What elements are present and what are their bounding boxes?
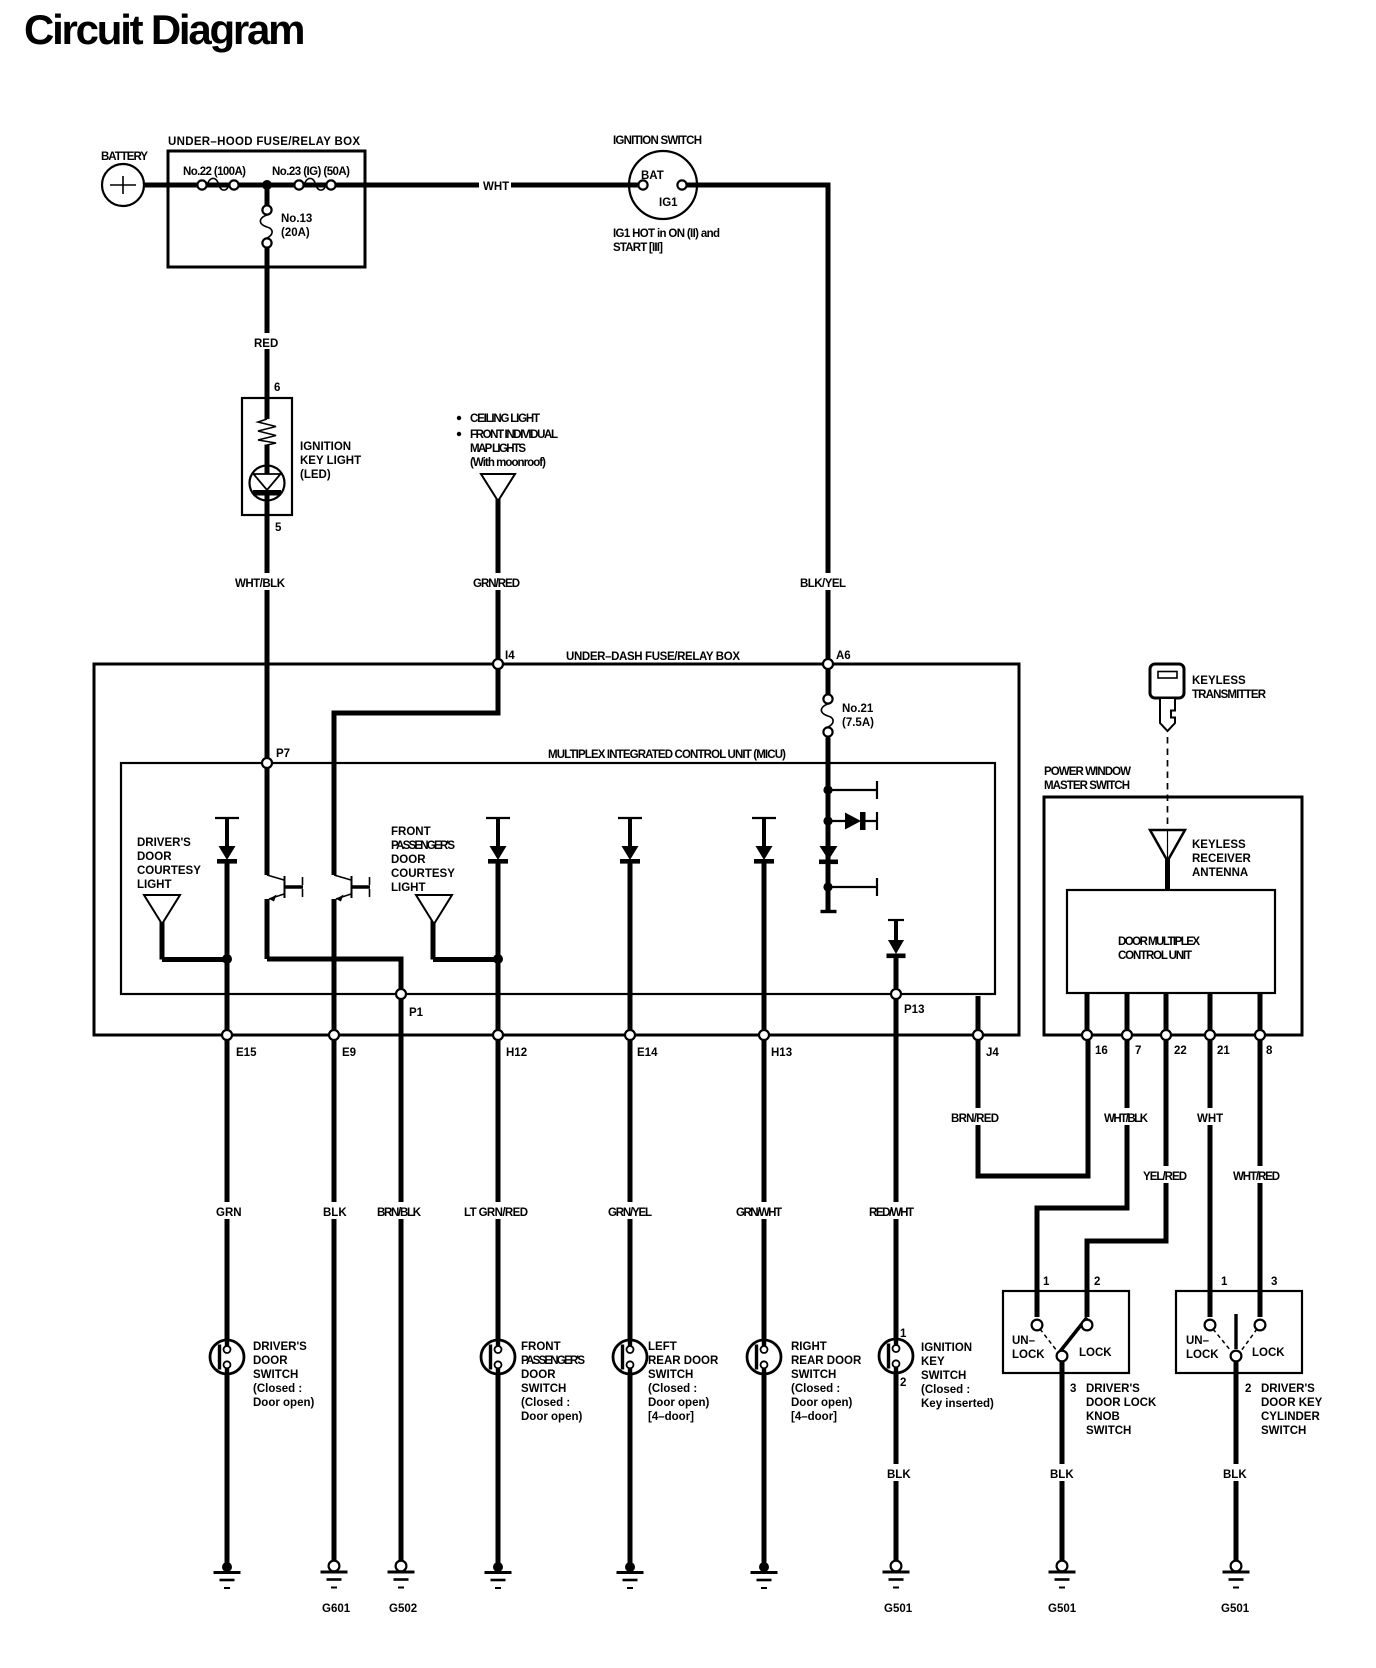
svg-text:8: 8	[1266, 1045, 1273, 1057]
svg-text:P13: P13	[904, 1004, 924, 1016]
svg-text:SWITCH: SWITCH	[648, 1369, 693, 1381]
svg-text:POWER WINDOW: POWER WINDOW	[1044, 766, 1131, 778]
svg-text:(LED): (LED)	[300, 469, 331, 481]
svg-text:No.21: No.21	[842, 703, 874, 715]
svg-text:PASSENGER'S: PASSENGER'S	[391, 840, 455, 852]
svg-text:ANTENNA: ANTENNA	[1192, 867, 1248, 879]
svg-text:(With moonroof): (With moonroof)	[470, 457, 546, 469]
svg-text:LT GRN/RED: LT GRN/RED	[464, 1207, 528, 1219]
svg-text:No.22 (100A): No.22 (100A)	[183, 166, 246, 178]
svg-text:A6: A6	[836, 650, 851, 662]
svg-text:Key inserted): Key inserted)	[921, 1398, 994, 1410]
svg-text:LIGHT: LIGHT	[137, 879, 172, 891]
svg-text:(Closed :: (Closed :	[791, 1383, 840, 1395]
svg-text:DOOR LOCK: DOOR LOCK	[1086, 1397, 1157, 1409]
svg-text:DRIVER'S: DRIVER'S	[1261, 1383, 1315, 1395]
svg-text:DRIVER'S: DRIVER'S	[137, 837, 191, 849]
svg-text:UN–: UN–	[1186, 1335, 1210, 1347]
svg-text:BAT: BAT	[641, 170, 664, 182]
svg-text:BLK/YEL: BLK/YEL	[800, 578, 846, 590]
svg-text:MASTER SWITCH: MASTER SWITCH	[1044, 780, 1130, 792]
svg-text:SWITCH: SWITCH	[253, 1369, 298, 1381]
svg-text:WHT: WHT	[483, 181, 509, 193]
svg-text:3: 3	[1070, 1383, 1076, 1395]
svg-text:G601: G601	[322, 1603, 351, 1615]
svg-text:BLK: BLK	[1050, 1469, 1074, 1481]
svg-text:DRIVER'S: DRIVER'S	[253, 1341, 307, 1353]
svg-text:No.13: No.13	[281, 213, 312, 225]
svg-text:BATTERY: BATTERY	[101, 151, 148, 163]
svg-text:LOCK: LOCK	[1252, 1347, 1285, 1359]
svg-text:SWITCH: SWITCH	[791, 1369, 836, 1381]
svg-text:LOCK: LOCK	[1186, 1349, 1219, 1361]
svg-text:G501: G501	[1048, 1603, 1077, 1615]
svg-text:LIGHT: LIGHT	[391, 882, 426, 894]
svg-text:Circuit Diagram: Circuit Diagram	[24, 6, 305, 53]
svg-text:[4–door]: [4–door]	[648, 1411, 694, 1423]
svg-text:BRN/RED: BRN/RED	[951, 1113, 999, 1125]
svg-text:RED/WHT: RED/WHT	[869, 1207, 914, 1219]
svg-text:G502: G502	[389, 1603, 417, 1615]
svg-text:E14: E14	[637, 1047, 658, 1059]
svg-text:TRANSMITTER: TRANSMITTER	[1192, 689, 1267, 701]
svg-text:UN–: UN–	[1012, 1335, 1036, 1347]
svg-text:(Closed :: (Closed :	[648, 1383, 697, 1395]
svg-text:SWITCH: SWITCH	[521, 1383, 566, 1395]
svg-text:IG1 HOT in ON (II) and: IG1 HOT in ON (II) and	[613, 228, 720, 240]
svg-text:IG1: IG1	[659, 197, 678, 209]
svg-text:(Closed :: (Closed :	[921, 1384, 970, 1396]
svg-text:BLK: BLK	[1223, 1469, 1247, 1481]
svg-text:GRN/YEL: GRN/YEL	[608, 1207, 652, 1219]
svg-text:RIGHT: RIGHT	[791, 1341, 827, 1353]
svg-text:IGNITION SWITCH: IGNITION SWITCH	[613, 135, 702, 147]
svg-text:BLK: BLK	[887, 1469, 911, 1481]
svg-text:PASSENGER'S: PASSENGER'S	[521, 1355, 585, 1367]
svg-text:FRONT: FRONT	[521, 1341, 561, 1353]
svg-text:3: 3	[1271, 1276, 1277, 1288]
svg-text:2: 2	[1094, 1276, 1100, 1288]
svg-text:H13: H13	[771, 1047, 792, 1059]
svg-text:P1: P1	[409, 1007, 424, 1019]
svg-text:21: 21	[1217, 1045, 1230, 1057]
svg-text:DOOR: DOOR	[137, 851, 172, 863]
svg-text:DOOR KEY: DOOR KEY	[1261, 1397, 1323, 1409]
svg-text:LOCK: LOCK	[1012, 1349, 1045, 1361]
svg-text:SWITCH: SWITCH	[1261, 1425, 1306, 1437]
svg-text:WHT/RED: WHT/RED	[1233, 1171, 1280, 1183]
svg-text:KEY: KEY	[921, 1356, 945, 1368]
svg-text:RECEIVER: RECEIVER	[1192, 853, 1251, 865]
svg-text:REAR DOOR: REAR DOOR	[648, 1355, 719, 1367]
svg-text:FRONT: FRONT	[391, 826, 431, 838]
svg-text:(20A): (20A)	[281, 227, 310, 239]
svg-text:GRN/WHT: GRN/WHT	[736, 1207, 782, 1219]
svg-text:(Closed :: (Closed :	[253, 1383, 302, 1395]
svg-text:WHT/BLK: WHT/BLK	[235, 578, 286, 590]
svg-text:LOCK: LOCK	[1079, 1347, 1112, 1359]
svg-text:Door open): Door open)	[253, 1397, 314, 1409]
svg-text:DOOR: DOOR	[391, 854, 426, 866]
svg-text:UNDER–HOOD FUSE/RELAY BOX: UNDER–HOOD FUSE/RELAY BOX	[168, 136, 360, 148]
svg-text:START [III]: START [III]	[613, 242, 663, 254]
svg-text:WHT/BLK: WHT/BLK	[1104, 1113, 1149, 1125]
svg-text:UNDER–DASH FUSE/RELAY BOX: UNDER–DASH FUSE/RELAY BOX	[566, 651, 740, 663]
svg-text:GRN/RED: GRN/RED	[473, 578, 520, 590]
svg-text:CEILING LIGHT: CEILING LIGHT	[470, 413, 540, 425]
svg-text:MAP LIGHTS: MAP LIGHTS	[470, 443, 526, 455]
svg-text:5: 5	[275, 522, 282, 534]
svg-text:LEFT: LEFT	[648, 1341, 677, 1353]
svg-text:I4: I4	[505, 650, 515, 662]
svg-text:DOOR: DOOR	[253, 1355, 288, 1367]
svg-text:Door open): Door open)	[791, 1397, 852, 1409]
svg-text:YEL/RED: YEL/RED	[1143, 1171, 1187, 1183]
svg-text:6: 6	[274, 382, 280, 394]
svg-text:[4–door]: [4–door]	[791, 1411, 837, 1423]
svg-text:2: 2	[900, 1377, 906, 1389]
svg-text:Door open): Door open)	[648, 1397, 709, 1409]
svg-text:1: 1	[1221, 1276, 1228, 1288]
svg-text:CYLINDER: CYLINDER	[1261, 1411, 1320, 1423]
svg-text:(Closed :: (Closed :	[521, 1397, 570, 1409]
svg-text:SWITCH: SWITCH	[1086, 1425, 1131, 1437]
svg-text:(7.5A): (7.5A)	[842, 717, 874, 729]
svg-text:No.23 (IG) (50A): No.23 (IG) (50A)	[272, 166, 350, 178]
svg-text:1: 1	[900, 1328, 907, 1340]
svg-text:BRN/BLK: BRN/BLK	[377, 1207, 422, 1219]
svg-text:WHT: WHT	[1197, 1113, 1223, 1125]
svg-text:SWITCH: SWITCH	[921, 1370, 966, 1382]
svg-text:KEY LIGHT: KEY LIGHT	[300, 455, 361, 467]
svg-text:RED: RED	[254, 338, 278, 350]
svg-text:2: 2	[1245, 1383, 1251, 1395]
svg-text:DRIVER'S: DRIVER'S	[1086, 1383, 1140, 1395]
svg-text:DOOR: DOOR	[521, 1369, 556, 1381]
svg-text:16: 16	[1095, 1045, 1108, 1057]
svg-text:Door open): Door open)	[521, 1411, 582, 1423]
svg-text:MULTIPLEX INTEGRATED CONTROL U: MULTIPLEX INTEGRATED CONTROL UNIT (MICU)	[548, 749, 786, 761]
svg-text:IGNITION: IGNITION	[300, 441, 351, 453]
svg-text:KEYLESS: KEYLESS	[1192, 675, 1246, 687]
svg-text:FRONT INDIVIDUAL: FRONT INDIVIDUAL	[470, 429, 558, 441]
svg-text:G501: G501	[884, 1603, 913, 1615]
svg-text:7: 7	[1135, 1045, 1141, 1057]
svg-text:22: 22	[1174, 1045, 1187, 1057]
svg-text:REAR DOOR: REAR DOOR	[791, 1355, 862, 1367]
svg-text:KNOB: KNOB	[1086, 1411, 1120, 1423]
svg-text:DOOR MULTIPLEX: DOOR MULTIPLEX	[1118, 936, 1200, 948]
svg-text:E9: E9	[342, 1047, 356, 1059]
svg-text:GRN: GRN	[216, 1207, 242, 1219]
svg-text:KEYLESS: KEYLESS	[1192, 839, 1246, 851]
svg-text:H12: H12	[506, 1047, 527, 1059]
svg-text:P7: P7	[276, 748, 290, 760]
svg-text:E15: E15	[236, 1047, 257, 1059]
svg-text:1: 1	[1043, 1276, 1050, 1288]
svg-text:J4: J4	[986, 1047, 999, 1059]
svg-text:CONTROL UNIT: CONTROL UNIT	[1118, 950, 1192, 962]
svg-text:COURTESY: COURTESY	[137, 865, 201, 877]
svg-text:COURTESY: COURTESY	[391, 868, 455, 880]
svg-text:BLK: BLK	[323, 1207, 347, 1219]
svg-text:G501: G501	[1221, 1603, 1250, 1615]
svg-text:IGNITION: IGNITION	[921, 1342, 972, 1354]
